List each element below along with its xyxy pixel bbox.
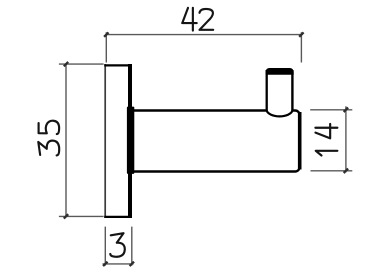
extension line top of 35	[59, 63, 104, 65]
label 35 (rotated)	[38, 121, 59, 156]
tick left 3	[103, 262, 107, 266]
dimension 42 (top)	[106, 32, 301, 62]
wall plate top edge	[104, 64, 132, 66]
peg bottom arc	[267, 111, 293, 117]
tick left 42	[104, 32, 108, 36]
tick bottom 35	[64, 214, 68, 218]
dimension 3 (bottom)	[103, 227, 134, 266]
dimension 14 (right)	[310, 106, 352, 172]
peg right edge	[291, 70, 293, 112]
hook arm (horizontal cylinder, side view)	[127, 107, 300, 174]
wall plate (side view rectangle)	[104, 64, 132, 218]
extension line right of 3	[131, 227, 133, 266]
label 14 (rotated)	[315, 124, 337, 156]
dim line 14	[345, 106, 347, 172]
arm right edge heavy overdraw	[298, 112, 302, 170]
label 42	[182, 8, 213, 31]
dim line 3	[103, 263, 134, 265]
tick right 42	[299, 32, 303, 36]
wall plate right edge (heavy)	[128, 64, 132, 218]
extension line left of 3	[104, 227, 106, 266]
label 3	[110, 233, 124, 257]
tick top 14	[344, 108, 348, 112]
extension line bottom of 14	[311, 170, 353, 172]
tick top 35	[64, 62, 68, 66]
extension line top of 14	[310, 109, 352, 111]
tick bottom 14	[344, 169, 348, 173]
extension line right of 42	[300, 32, 302, 62]
dim line 42	[106, 34, 301, 36]
peg left edge	[266, 70, 268, 112]
peg (vertical stub on top of arm)	[266, 68, 294, 117]
extension line bottom of 35	[59, 215, 104, 217]
arm left end cap (heavy band at plate junction)	[127, 107, 134, 174]
extension line left of 42	[105, 32, 107, 62]
wall plate bottom edge	[104, 216, 132, 218]
dimension 35 (left)	[59, 64, 104, 216]
wall plate left edge	[104, 64, 106, 218]
peg top cap (heavy bar, rounded top corners)	[266, 68, 294, 75]
tick right 3	[130, 262, 134, 266]
dim line 35	[65, 64, 67, 216]
